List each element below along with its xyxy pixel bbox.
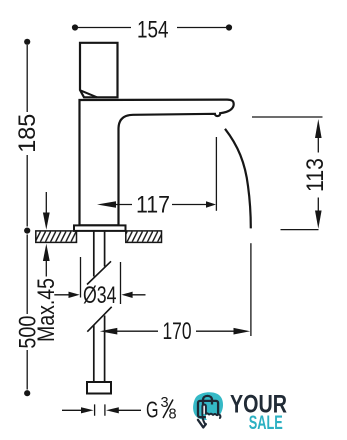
svg-text:3: 3 xyxy=(161,395,169,411)
svg-text:8: 8 xyxy=(169,407,177,423)
svg-text:Max.45: Max.45 xyxy=(33,278,60,342)
svg-text:SALE: SALE xyxy=(249,412,283,434)
svg-text:G: G xyxy=(146,397,159,423)
svg-text:113: 113 xyxy=(302,158,329,192)
svg-text:170: 170 xyxy=(163,318,192,345)
svg-text:154: 154 xyxy=(137,17,169,44)
svg-text:Ø34: Ø34 xyxy=(83,282,117,309)
svg-text:117: 117 xyxy=(136,192,170,219)
svg-text:185: 185 xyxy=(14,114,41,153)
